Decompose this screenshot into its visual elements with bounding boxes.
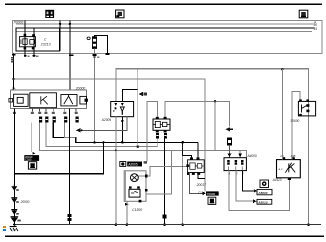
relay K inside 20000 [30,93,57,108]
vertical x=137.7 branch from y=68.7 down to y=147.8 [136,69,139,147]
wire from dot 182.6 to relay 20017 pin [183,142,192,159]
wire 20017 bottom pin to label box 70000 [190,173,203,194]
svg-text:77: 77 [12,229,16,233]
wire y=101.3 from small relay pin x=165.2 to fuse x=229.4 [165,101,229,126]
bus line +15 (black) [16,28,315,29]
svg-text:2B: 2B [279,154,284,158]
arrow marker left (x=75-80) [76,128,81,132]
splice symbol 3 [11,210,17,215]
ground symbol 77 [10,226,18,233]
svg-text:70000: 70000 [207,192,216,196]
svg-text:A2009: A2009 [101,118,111,122]
blue wire color mark [3,229,6,231]
top page border [5,4,322,5]
component A2009 box [111,102,134,117]
wire A2009 bottom pin arrow left [81,117,127,131]
connector pair symbols below 20000 [39,117,79,123]
bus line (gray) [16,31,312,32]
element right edge of 20000 [80,96,88,104]
diode chain bottom-left [11,184,21,222]
svg-text:20000: 20000 [20,200,30,204]
component A4000 [224,158,246,171]
wire small relay left pin down to y=146.3 line [156,138,159,146]
inner black box around relay 23213 [16,28,59,51]
switch inside 20000 [61,95,77,106]
wire small relay right pin down to ground [164,138,165,224]
splice symbol 4 (larger) [11,217,19,222]
staircase wire 39.6 to y=150.3 into A4000 [40,123,247,158]
bottom page border [5,235,324,237]
wire from A2005 label up x=147.1 along y=101.3 to small relay top pin [147,101,157,161]
black horizontal y=142.4 dot at x=182.6 [181,141,184,144]
svg-text:C030: C030 [25,158,32,162]
svg-text:20000: 20000 [75,86,86,90]
svg-text:23213: 23213 [40,42,51,46]
wire fuse bottom down (x=94.4) [94,49,95,143]
ground bus y=224.4 [14,224,321,225]
wire A2009 bottom pin to dot on black line [122,117,123,143]
svg-text:C1300: C1300 [132,208,142,212]
svg-text:A4110: A4110 [272,178,282,182]
pin number labels below 20000 [13,112,78,114]
wire x=182.7 from black line to ground bus [181,142,184,224]
wire x=282.5 from bus y=68.9 to K pin 2B [282,69,283,160]
svg-text:a.c: a.c [279,167,284,171]
long wire y=79 from x=13.7 to x=204.9 then down to label box 70000 [14,79,205,191]
long vertical x=115.8 down to ground [115,117,116,225]
wire relay 20017 top right pin up to black line [197,142,198,159]
long wire y=68.9 from x=115.5 to 30600 [116,69,309,102]
wire motor right side to relay 20017 left pin [138,166,187,176]
connector icon box below [208,197,216,204]
motor cluster: icon box [120,161,147,166]
wire 20017 bottom-right pin down-right into label box [198,175,205,178]
fuse mid-right [228,138,232,145]
box 20000 (relay/switch unit) [11,90,87,109]
svg-text:70000: 70000 [13,20,23,24]
connector icon box below 20010 [28,162,36,169]
svg-text:20017: 20017 [196,183,207,187]
icon top-middle (outlined square icon) [116,10,124,18]
connector pairs below small relay [156,133,159,139]
splice label box 20010 (white on black) [24,152,39,169]
svg-text:30600: 30600 [290,119,299,123]
orange wire color mark [3,226,6,228]
wire through relay 23213 pin a [25,20,26,57]
fusebox 70000 outer box [12,20,321,53]
wire fuse to A4000 pin [229,145,230,158]
bus line +30 (gray) [16,23,315,24]
relay 23213 [20,34,36,50]
svg-text:A4000: A4000 [247,154,257,158]
wire from bus to inner box (x=60) [60,20,61,51]
splice symbol 1 [11,186,17,191]
wire label ticks below fusebox left [13,54,14,91]
wire from bus down to box 20000 top (x=69.8) [69,20,70,90]
staircase wire 53.2 black to y=142.4 [53,123,198,143]
fuse designation label [87,37,90,40]
label box 70000 (white on black) [206,191,219,204]
motor circle [131,174,139,182]
wire A4000 pin2 to label A5000 black [243,171,255,191]
label box A5000 [257,189,272,195]
component 30600 [298,99,315,116]
small relay component x=153-170 [153,117,170,133]
connector element inside 20000 [9,94,28,106]
motor component box [124,171,146,203]
wire 30600 loop to K pin 10B [292,91,300,159]
svg-text:A2005: A2005 [128,162,137,166]
svg-text:A5010: A5010 [257,200,267,204]
splice symbol 2 [11,198,17,203]
arrow 4b [138,92,142,96]
wire fuse top loop to box bottom [94,36,107,54]
wire pin1 of 20000 down to ground area (x=14.3) [14,109,15,225]
arrow 4a on fuse wire [226,127,230,131]
icon box near K [260,180,269,188]
pins below box 20000 [14,109,77,112]
svg-text:C1a: C1a [198,191,203,195]
wire A4000 pin5 to label A5010 [236,171,253,202]
wire x=215 down to y=150.3 line [214,101,216,150]
icon top-left (black square icon) [45,10,54,18]
staircase wire 45.8 to y=146.3 [46,123,158,147]
relay 20017 [186,157,204,175]
wire motor pin b to x=171.3 up [146,150,171,194]
svg-text:A5000: A5000 [257,191,267,195]
svg-text:15: 15 [314,27,318,31]
wire x=69.5 black to ground bus [69,109,70,225]
black wire x=103 from y=142.4 down left to ground chain [14,142,103,173]
wire A4000 pin1 to K box 9B [229,171,290,211]
relay box K (A4110) [277,157,301,180]
inner relay box [129,189,140,197]
connector on x=69.5 wire [68,214,72,217]
svg-text:1A: 1A [12,86,16,90]
svg-text:10B: 10B [290,154,295,158]
fuse in fusebox [92,36,97,48]
wire A2009 top pin loop to arrow 4b [122,89,137,101]
icon top-right (outlined square icon) [299,10,308,18]
wire 30600 right pin down to ground [308,101,309,116]
wire motor left pin to ground [127,201,128,224]
label box A5010 [257,199,272,204]
wire through relay 23213 pin b [33,28,34,57]
wire 64.7 short [65,123,76,138]
wire pin x=31.7 down to connector 20010 [30,123,33,153]
stub wire y=151.9 into A4000 [239,150,241,157]
black label A2005 [127,162,142,167]
